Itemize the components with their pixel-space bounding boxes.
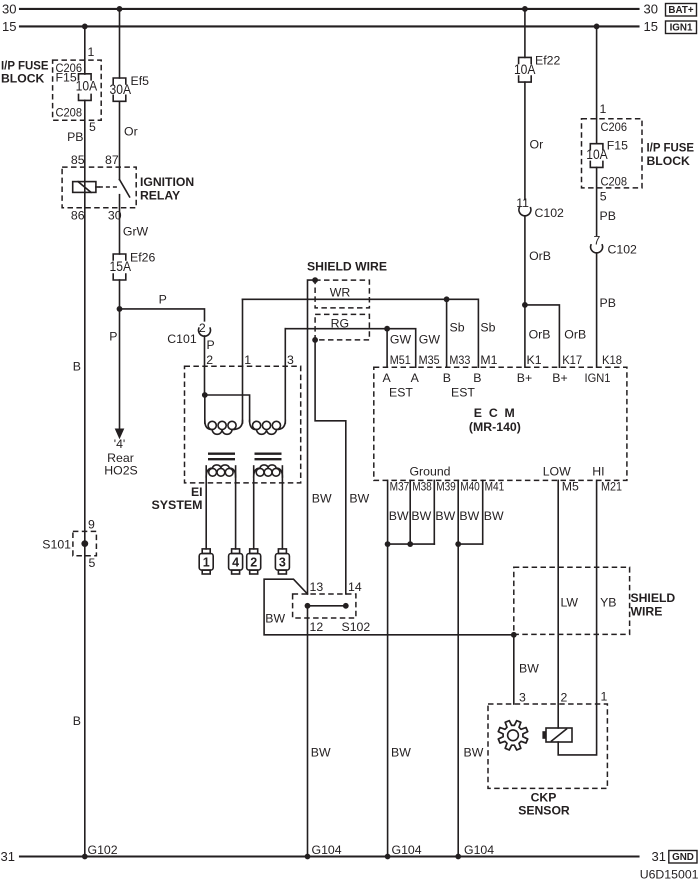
node S102 dot pin13 side: [305, 603, 311, 609]
connector C101 pin 2 (half circle): [199, 328, 211, 336]
node junction on rail 30 at Ef5 feed: [117, 6, 123, 12]
svg-text:M41: M41: [485, 480, 505, 494]
shield box CKP shield wire (dashed): [514, 567, 630, 634]
svg-text:B: B: [443, 371, 451, 385]
svg-text:12: 12: [310, 620, 324, 634]
svg-text:C101: C101: [167, 332, 197, 346]
connector block EI SYSTEM (dashed): [185, 366, 301, 483]
inductor primary coil left (ignition coil 1): [205, 421, 243, 435]
node WR shield drain connection: [312, 277, 318, 283]
svg-text:IGN1: IGN1: [585, 371, 611, 385]
wire M37 ground down to G104: [387, 480, 389, 856]
spark plug 1: [202, 549, 210, 554]
svg-text:PB: PB: [67, 130, 83, 144]
svg-text:K17: K17: [562, 353, 582, 367]
svg-text:P: P: [207, 338, 215, 352]
svg-text:HO2S: HO2S: [104, 464, 138, 478]
wire OrB branch to ECM K17: [525, 305, 560, 367]
node GND tag box: [669, 851, 697, 864]
wire pin2 splice down to left primary coil: [204, 395, 206, 423]
wire M38 ground: [409, 480, 411, 544]
transformer core left: [208, 453, 235, 455]
sensor CKP SENSOR (dashed box): [488, 704, 607, 788]
svg-text:S102: S102: [342, 620, 371, 634]
connector C102 pin 7 (half circle): [591, 245, 603, 253]
svg-text:31: 31: [1, 849, 15, 864]
wire EI pin 3 from RG line to right primary coil: [284, 329, 286, 423]
svg-text:C206: C206: [601, 120, 628, 134]
svg-text:SYSTEM: SYSTEM: [152, 498, 203, 512]
wire RG from EI pin3 to ECM M35: [285, 329, 415, 368]
svg-text:GW: GW: [390, 333, 412, 347]
svg-text:G104: G104: [392, 843, 422, 857]
svg-text:BW: BW: [459, 509, 479, 523]
svg-text:BW: BW: [411, 509, 431, 523]
svg-text:G104: G104: [464, 843, 494, 857]
wire ground bus M37-M39: [388, 543, 435, 545]
node ground G104 junction 1: [305, 854, 311, 860]
wire M39 ground: [433, 480, 435, 544]
svg-text:BW: BW: [265, 612, 285, 626]
node S102 dot pin14 side: [343, 603, 349, 609]
svg-text:G104: G104: [312, 843, 342, 857]
connector block I/P FUSE BLOCK left (dashed): [53, 60, 102, 120]
node primary feed splice in EI box: [202, 392, 208, 398]
svg-text:HI: HI: [592, 464, 604, 478]
svg-text:1: 1: [203, 556, 210, 570]
svg-text:M21: M21: [601, 480, 622, 494]
svg-text:BW: BW: [391, 746, 411, 760]
svg-text:P: P: [159, 293, 167, 307]
wire PB from fuse block to relay pin 85: [84, 100, 86, 192]
svg-text:EST: EST: [389, 385, 413, 399]
node P splice junction: [117, 306, 123, 312]
connector C102 pin 11 (half circle): [519, 208, 531, 216]
inductor secondary coil left: [206, 465, 235, 477]
svg-text:F15: F15: [56, 71, 77, 85]
svg-text:BW: BW: [389, 509, 409, 523]
wire M21 HI down to CKP pin 1 and sensor: [558, 480, 596, 755]
wire S102 internal link: [308, 605, 346, 607]
svg-text:I/P FUSE: I/P FUSE: [1, 59, 49, 73]
svg-text:BW: BW: [484, 509, 504, 523]
wire WR shield drain down to S102 pin 13: [308, 280, 316, 594]
wire Or from Ef22 to C102 pin 11: [524, 82, 526, 199]
svg-text:BW: BW: [349, 492, 369, 506]
svg-text:86: 86: [71, 209, 85, 223]
svg-text:3: 3: [519, 690, 526, 704]
svg-text:GND: GND: [672, 852, 694, 863]
svg-text:B: B: [73, 360, 81, 374]
svg-text:87: 87: [105, 153, 119, 167]
wire OrB to ECM K1: [524, 305, 526, 367]
svg-text:10A: 10A: [76, 78, 98, 93]
wire B from relay pin 86 down through S101 to G102: [84, 192, 86, 856]
wire ground bus M40-M41: [458, 543, 483, 545]
svg-text:14: 14: [348, 580, 362, 594]
svg-text:3: 3: [287, 353, 294, 367]
node WR junction to M33: [444, 296, 450, 302]
wire splice to right primary coil: [205, 395, 250, 422]
svg-text:15: 15: [644, 19, 658, 34]
svg-text:I/P FUSE: I/P FUSE: [647, 141, 695, 155]
wire from rail 15 to fuse F15: [84, 26, 86, 74]
inductor secondary coil right: [254, 465, 283, 477]
svg-text:10A: 10A: [586, 147, 608, 162]
node junction on rail 15 at right F15 feed: [594, 24, 600, 30]
wire WR from EI pin1 to ECM M1: [243, 299, 479, 367]
wire secondary right-2 to spark plug 3: [281, 466, 283, 549]
wire secondary left-2 to spark plug 4: [235, 466, 237, 549]
svg-text:OrB: OrB: [564, 328, 586, 342]
fuse Ef5 30A: [113, 78, 126, 84]
svg-text:SENSOR: SENSOR: [518, 804, 570, 818]
spark plug 4: [232, 549, 240, 554]
svg-text:GrW: GrW: [123, 225, 149, 239]
svg-text:M1: M1: [480, 353, 497, 367]
wire P branch horizontal to C101: [120, 309, 205, 321]
svg-text:9: 9: [88, 518, 95, 532]
svg-text:C208: C208: [601, 174, 628, 188]
wire from rail 30 to fuse Ef5: [119, 9, 121, 78]
svg-text:Or: Or: [530, 138, 544, 152]
svg-text:C102: C102: [535, 206, 565, 220]
wire from C101 into EI system pin 2: [204, 336, 206, 395]
svg-text:G102: G102: [88, 843, 118, 857]
svg-text:M38: M38: [412, 480, 432, 494]
svg-text:CKP: CKP: [531, 790, 557, 804]
node junction on rail 30 at Ef22 feed: [522, 6, 528, 12]
wire M40 ground down to G104: [457, 480, 459, 856]
wire M33 branch: [446, 299, 448, 367]
shield box WR (dashed): [315, 280, 369, 308]
svg-text:EI: EI: [191, 485, 203, 499]
wire PB from right fuse block to C102 pin 7: [596, 167, 598, 235]
svg-text:2: 2: [561, 690, 568, 704]
wire GrW from relay pin 30 to fuse Ef26: [119, 195, 121, 254]
wire from Ef26 to P splice: [119, 280, 121, 309]
svg-text:LOW: LOW: [543, 464, 571, 478]
svg-text:Or: Or: [124, 125, 138, 139]
node ground G104 junction 3: [455, 854, 461, 860]
node ground G102 junction: [82, 854, 88, 860]
svg-text:BAT+: BAT+: [668, 5, 693, 16]
svg-text:BLOCK: BLOCK: [1, 72, 45, 86]
svg-text:11: 11: [516, 196, 529, 210]
svg-text:LW: LW: [561, 596, 579, 610]
svg-text:1: 1: [601, 690, 608, 704]
svg-text:SHIELD WIRE: SHIELD WIRE: [307, 260, 387, 274]
svg-text:C102: C102: [608, 242, 638, 256]
svg-text:IGNITION: IGNITION: [140, 175, 194, 189]
relay coil K1 box: [73, 182, 96, 193]
shield box RG (dashed): [315, 314, 369, 340]
sensor pickup coil symbol: [546, 728, 572, 742]
svg-text:B+: B+: [552, 371, 567, 385]
svg-text:31: 31: [652, 849, 666, 864]
wire M41 ground: [482, 480, 484, 544]
fuse Ef22 10A: [519, 57, 532, 63]
wire Or from Ef5 to relay pin 87: [119, 101, 121, 179]
wire rail 31 (GND): [20, 855, 639, 857]
node RG shield drain connection: [312, 337, 318, 343]
svg-text:BW: BW: [435, 509, 455, 523]
wire secondary left-1 to spark plug 1: [205, 466, 207, 549]
svg-text:13: 13: [310, 580, 324, 594]
spark plug 3: [278, 549, 286, 554]
connector block I/P FUSE BLOCK right (dashed): [582, 119, 643, 188]
svg-text:A: A: [382, 371, 391, 385]
svg-text:BW: BW: [519, 662, 539, 676]
svg-text:WIRE: WIRE: [631, 604, 663, 618]
node BAT+ tag box: [666, 4, 697, 17]
svg-text:BW: BW: [311, 746, 331, 760]
node ground G104 junction 2: [385, 854, 391, 860]
svg-text:M51: M51: [390, 353, 411, 367]
svg-text:5: 5: [89, 556, 96, 570]
svg-text:5: 5: [89, 120, 96, 134]
fuse F15 10A left: [79, 74, 92, 80]
svg-text:U6D15001: U6D15001: [640, 868, 699, 882]
wire OrB from C102 to K1 splice: [524, 216, 526, 305]
svg-text:A: A: [411, 371, 420, 385]
svg-text:B: B: [473, 371, 481, 385]
svg-text:M40: M40: [460, 480, 480, 494]
relay switch blade 87-30: [120, 180, 130, 197]
svg-text:PB: PB: [600, 296, 616, 310]
wire S102 pin 12 down to G104: [307, 606, 309, 857]
svg-text:B: B: [73, 714, 81, 728]
node bus dot M40: [455, 541, 461, 547]
svg-text:7: 7: [594, 233, 601, 247]
svg-text:1: 1: [600, 102, 607, 116]
svg-text:B+: B+: [517, 371, 532, 385]
svg-text:Ground: Ground: [409, 464, 450, 478]
svg-text:YB: YB: [600, 596, 616, 610]
svg-text:4: 4: [232, 556, 239, 570]
svg-text:S101: S101: [42, 538, 71, 552]
wire secondary right-1 to spark plug 2: [253, 466, 255, 549]
svg-text:(MR-140): (MR-140): [469, 420, 521, 434]
svg-text:IGN1: IGN1: [670, 23, 693, 34]
svg-text:SHIELD: SHIELD: [631, 591, 676, 605]
svg-text:30: 30: [644, 1, 658, 16]
wire M5 LOW down to CKP pin 2: [557, 480, 559, 728]
svg-text:OrB: OrB: [529, 249, 551, 263]
node bus dot M38: [407, 541, 413, 547]
ECM U1 (dashed box): [374, 367, 627, 480]
svg-text:30: 30: [2, 1, 16, 16]
svg-text:1: 1: [88, 45, 95, 59]
fuse Ef26 15A: [113, 254, 126, 260]
svg-text:F15: F15: [607, 138, 628, 152]
svg-text:BW: BW: [464, 746, 484, 760]
inductor primary coil right (ignition coil 2): [250, 421, 286, 435]
svg-text:3: 3: [279, 556, 286, 570]
wire PB from C102 to ECM K18: [596, 253, 598, 367]
svg-text:RELAY: RELAY: [140, 189, 180, 203]
svg-text:M5: M5: [562, 480, 579, 494]
wire from rail 15 to right fuse block: [596, 26, 598, 143]
svg-text:WR: WR: [330, 286, 351, 300]
spark plug 2: [250, 549, 258, 554]
splice S101 (dashed box): [73, 531, 97, 555]
svg-text:K18: K18: [602, 353, 622, 367]
wire P down to Rear HO2S arrow: [119, 309, 121, 429]
svg-text:E C M: E C M: [474, 406, 515, 420]
svg-text:C208: C208: [56, 106, 83, 120]
wire RG shield drain down to S102 pin 14: [315, 340, 346, 594]
wire CKP shield drain to pin 3: [513, 635, 515, 704]
svg-text:15: 15: [2, 19, 16, 34]
svg-text:2: 2: [250, 556, 257, 570]
splice S102 (dashed box): [293, 594, 356, 618]
svg-text:Ef22: Ef22: [535, 54, 560, 68]
svg-text:M37: M37: [390, 480, 410, 494]
transformer core right: [255, 453, 282, 455]
svg-text:10A: 10A: [514, 62, 536, 77]
svg-text:85: 85: [71, 153, 85, 167]
icon reluctor gear: [498, 721, 527, 750]
node OrB splice junction: [522, 302, 528, 308]
svg-text:GW: GW: [419, 333, 441, 347]
svg-text:EST: EST: [451, 385, 475, 399]
relay IGNITION RELAY (dashed box): [62, 167, 136, 208]
wire EI pin 1 from WR line to left primary coil: [242, 299, 244, 423]
node junction on rail 15 at F15 feed: [82, 24, 88, 30]
svg-text:1: 1: [244, 353, 251, 367]
wire rail 30 (BAT+): [20, 8, 639, 10]
svg-text:K1: K1: [527, 353, 542, 367]
svg-text:BW: BW: [312, 492, 332, 506]
node S101 splice dot: [81, 540, 88, 547]
node CKP shield drain junction: [511, 632, 517, 638]
svg-text:P: P: [109, 330, 117, 344]
wire M51 branch: [386, 329, 388, 368]
svg-text:M39: M39: [436, 480, 456, 494]
svg-text:Ef5: Ef5: [131, 74, 150, 88]
svg-text:5: 5: [600, 190, 607, 204]
svg-text:30A: 30A: [110, 82, 132, 97]
node bus dot M37: [385, 541, 391, 547]
wire from rail 30 to fuse Ef22: [524, 9, 526, 58]
svg-text:Sb: Sb: [480, 321, 495, 335]
svg-text:M33: M33: [449, 353, 470, 367]
node RG junction to M51: [384, 326, 390, 332]
svg-text:BLOCK: BLOCK: [647, 154, 691, 168]
wire rail 15 (IGN1): [20, 25, 639, 27]
svg-text:2: 2: [206, 353, 213, 367]
fuse F15 10A right: [590, 144, 603, 150]
relay mechanical link (dashed): [96, 186, 99, 188]
svg-text:Sb: Sb: [450, 321, 465, 335]
svg-text:Ef26: Ef26: [130, 251, 155, 265]
svg-text:M35: M35: [419, 353, 440, 367]
svg-text:PB: PB: [600, 209, 616, 223]
svg-text:OrB: OrB: [529, 328, 551, 342]
svg-text:15A: 15A: [110, 259, 132, 274]
node IGN1 tag box: [666, 21, 697, 34]
svg-text:'4': '4': [114, 437, 126, 451]
wire link S102 pin13 to CKP shield drain: [264, 579, 514, 635]
